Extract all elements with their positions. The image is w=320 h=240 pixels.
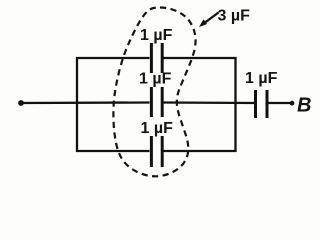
- svg-text:1 µF: 1 µF: [139, 71, 172, 88]
- capacitor C4 (series 1 uF): [256, 90, 268, 118]
- dashed loop enclosing parallel capacitors (equivalent 3 uF): [113, 8, 195, 177]
- svg-text:1 µF: 1 µF: [245, 70, 278, 87]
- svg-text:1 µF: 1 µF: [141, 120, 174, 137]
- wire: box bottom side, right of capacitor C3: [163, 150, 237, 152]
- wire: left terminal to middle capacitor left plate: [22, 101, 150, 104]
- leader arrow from 3 uF label to dashed loop: [199, 13, 219, 28]
- wire: right capacitor to terminal B: [268, 102, 290, 104]
- wire: box left vertical side: [76, 57, 78, 152]
- svg-text:1 µF: 1 µF: [140, 27, 173, 44]
- capacitor C3 (bottom 1 uF): [151, 136, 162, 167]
- svg-text:B: B: [297, 95, 311, 117]
- wire: box top side, left of capacitor C1: [76, 57, 150, 59]
- wire: middle capacitor right plate to right edge of box: [163, 101, 255, 104]
- node B terminal dot: [290, 101, 295, 106]
- node A (left terminal dot): [18, 100, 24, 106]
- wire: box bottom side, left of capacitor C3: [76, 150, 150, 152]
- wire: box top side, right of capacitor C1: [163, 57, 237, 59]
- capacitor C1 (top 1 uF): [151, 43, 162, 73]
- wire: box right vertical side: [234, 57, 236, 152]
- capacitor C2 (middle 1 uF): [151, 87, 162, 117]
- svg-text:3 µF: 3 µF: [218, 8, 251, 25]
